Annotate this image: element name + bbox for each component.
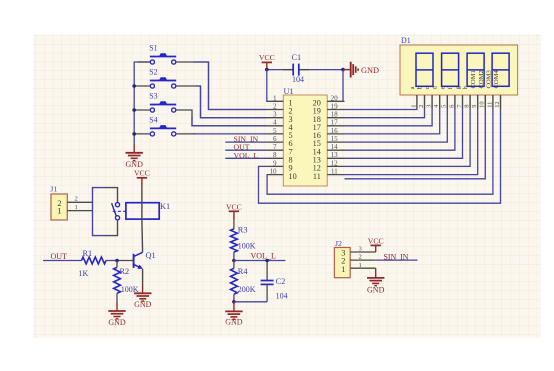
junction C1 left: [265, 68, 269, 72]
display pin 4: [439, 95, 441, 109]
svg-text:7: 7: [273, 144, 277, 151]
svg-text:GND: GND: [134, 300, 152, 309]
U1 pin 9 stub: [267, 165, 284, 167]
wire S4 left stub: [134, 133, 150, 135]
wire VCC to C1 to GND: [267, 69, 293, 71]
svg-text:1: 1: [57, 206, 61, 216]
wire S3 left stub: [134, 109, 150, 111]
U1 pin 5 stub: [267, 133, 284, 135]
J2 pin 2: [350, 259, 376, 261]
switch S3: [150, 108, 154, 112]
svg-text:11: 11: [313, 172, 321, 181]
svg-text:13: 13: [331, 152, 338, 159]
IC U1 body: [283, 95, 327, 186]
svg-text:c: c: [424, 86, 431, 89]
svg-text:J2: J2: [335, 239, 342, 248]
junction C2 top: [265, 259, 269, 263]
J1 pin 2: [67, 201, 92, 203]
U1 pin 3 stub: [267, 117, 284, 119]
svg-text:U1: U1: [284, 87, 294, 96]
wire R2 to ground: [116, 293, 118, 302]
svg-text:COM1: COM1: [470, 70, 477, 88]
wire contact loop: [93, 188, 106, 236]
svg-text:14: 14: [331, 144, 338, 151]
wire display pin 1 to U1: [345, 109, 417, 110]
display D1 body: [400, 45, 518, 95]
svg-text:19: 19: [331, 103, 338, 110]
display digit 2: [442, 53, 459, 86]
net OUT at U1 pin7: [225, 149, 266, 151]
svg-text:1K: 1K: [79, 269, 89, 278]
display digit 1: [416, 53, 433, 86]
ground below R2: [108, 310, 125, 312]
svg-text:10: 10: [479, 101, 486, 107]
wire U1 pin9 to display pin12: [259, 109, 501, 204]
svg-text:2: 2: [359, 254, 362, 261]
svg-text:10: 10: [289, 172, 297, 181]
ground at J2: [375, 268, 377, 278]
U1 pin 15 stub: [327, 141, 344, 143]
svg-text:S4: S4: [149, 116, 157, 125]
net SIN_IN wire at J2: [376, 259, 418, 261]
svg-text:6: 6: [448, 105, 455, 108]
resistor R2: [116, 261, 118, 268]
connector J2 body: [334, 248, 350, 278]
display pin 7: [462, 95, 464, 109]
svg-text:VCC: VCC: [259, 53, 275, 62]
capacitor C2: [266, 261, 268, 281]
svg-text:1: 1: [75, 204, 78, 211]
U1 pin 7 stub: [267, 149, 284, 151]
display digit 3: [467, 53, 484, 86]
svg-text:GND: GND: [126, 160, 144, 169]
svg-text:S2: S2: [149, 68, 157, 77]
svg-text:3: 3: [273, 112, 277, 119]
wire R1 to node: [106, 260, 119, 262]
wire display pin 7 to U1: [345, 109, 463, 159]
wire Q1 emitter to ground: [142, 269, 144, 286]
svg-text:COM3: COM3: [485, 69, 492, 88]
svg-text:GND: GND: [225, 318, 243, 327]
junction C1 right: [341, 68, 345, 72]
display pin 5: [446, 95, 448, 109]
connector J1 body: [51, 194, 67, 220]
net SIN_IN at U1 pin6: [225, 141, 266, 143]
transistor Q1: [133, 254, 135, 268]
svg-text:OUT: OUT: [51, 252, 68, 261]
J2 pin 3: [350, 251, 376, 253]
junction R3/R4: [232, 259, 236, 263]
svg-text:200K: 200K: [238, 285, 256, 294]
wire display pin 8 to U1: [345, 109, 471, 167]
U1 pin 1 stub: [267, 100, 284, 102]
svg-text:20: 20: [331, 95, 338, 102]
svg-text:a: a: [409, 86, 416, 89]
net VOL_L at U1 pin8: [225, 157, 266, 159]
wire display pin 9 to U1: [345, 109, 478, 175]
U1 pin 11 stub: [327, 174, 344, 176]
resistor R4: [233, 261, 235, 269]
svg-text:R3: R3: [238, 226, 248, 235]
wire U1 pin10 to display pin11: [267, 109, 493, 195]
wire display pin 10: [345, 109, 486, 179]
svg-text:C2: C2: [276, 277, 286, 286]
svg-text:6: 6: [273, 136, 277, 143]
U1 pin 16 stub: [327, 133, 344, 135]
svg-text:Q1: Q1: [146, 251, 156, 260]
svg-text:SIN_IN: SIN_IN: [384, 252, 409, 261]
svg-text:104: 104: [276, 292, 288, 301]
U1 pin 19 stub: [327, 109, 344, 111]
svg-text:R4: R4: [238, 267, 249, 276]
U1 pin 2 stub: [267, 109, 284, 111]
display pin 1: [416, 95, 418, 109]
display pin 12: [500, 95, 502, 109]
resistor R1: [82, 257, 107, 264]
U1 pin 6 stub: [267, 141, 284, 143]
wire display pin 6 to U1: [345, 109, 455, 151]
ground below Q1: [134, 292, 151, 294]
U1 pin 13 stub: [327, 157, 344, 159]
svg-text:3: 3: [426, 105, 433, 108]
display pin 10: [484, 95, 486, 109]
wire display pin 4 to U1: [345, 109, 440, 134]
svg-text:R1: R1: [83, 249, 93, 258]
switch S2: [150, 84, 154, 88]
svg-text:GND: GND: [367, 286, 385, 295]
svg-text:S3: S3: [149, 92, 157, 101]
wire R4 to ground: [233, 302, 235, 312]
resistor R3: [233, 220, 235, 229]
svg-text:1: 1: [359, 262, 362, 269]
svg-text:1: 1: [341, 265, 345, 274]
power ground right of C1: [343, 69, 351, 71]
svg-text:104: 104: [292, 75, 304, 84]
svg-text:GND: GND: [108, 318, 126, 327]
svg-text:1: 1: [273, 95, 276, 102]
display pin 8: [469, 95, 471, 109]
svg-text:12: 12: [494, 101, 501, 107]
display digit 4: [492, 53, 509, 86]
svg-text:S1: S1: [149, 44, 157, 53]
svg-text:J1: J1: [50, 184, 57, 193]
svg-text:15: 15: [331, 136, 338, 143]
wire GND junction down to pin20: [327, 70, 343, 102]
svg-text:VCC: VCC: [226, 203, 242, 212]
svg-text:VCC: VCC: [134, 169, 150, 178]
wire S1 to U1 pin2: [176, 62, 267, 110]
svg-text:17: 17: [331, 120, 338, 127]
junction on rail at S4: [132, 132, 136, 136]
wire display pin 5 to U1: [345, 109, 448, 143]
svg-text:COM2: COM2: [478, 70, 485, 88]
U1 pin 10 stub: [267, 174, 284, 176]
svg-text:K1: K1: [160, 202, 170, 211]
net OUT wire: [43, 260, 82, 262]
display pin 6: [454, 95, 456, 109]
wire node to Q1 base: [117, 260, 134, 262]
capacitor C1: [283, 69, 293, 71]
svg-text:10: 10: [270, 169, 277, 176]
U1 pin 20 stub: [327, 100, 344, 102]
wire left rail of switches: [134, 62, 150, 144]
display pin 3: [431, 95, 433, 109]
svg-text:GND: GND: [361, 66, 379, 75]
svg-text:R2: R2: [120, 267, 130, 276]
svg-text:12: 12: [331, 160, 338, 167]
svg-text:8: 8: [273, 152, 277, 159]
J1 pin 1: [67, 210, 92, 212]
svg-text:COM4: COM4: [493, 69, 500, 88]
svg-text:2: 2: [418, 105, 425, 108]
ground below R4: [225, 310, 242, 312]
J2 pin 1: [350, 267, 376, 269]
svg-text:D1: D1: [401, 36, 411, 45]
junction on rail at S3: [132, 108, 136, 112]
wire display pin 3 to U1: [345, 109, 433, 126]
display pin 11: [492, 95, 494, 109]
svg-text:8: 8: [464, 105, 471, 108]
wire C2 bottom to R4: [234, 301, 267, 303]
U1 pin 14 stub: [327, 149, 344, 151]
svg-text:VOL_L: VOL_L: [234, 151, 259, 160]
svg-text:16: 16: [331, 128, 338, 135]
svg-text:100K: 100K: [238, 242, 256, 251]
U1 pin 4 stub: [267, 125, 284, 127]
U1 pin 12 stub: [327, 165, 344, 167]
wire S2 left stub: [134, 85, 150, 87]
wire S1 left stub: [138, 61, 151, 63]
relay contact: [115, 203, 119, 207]
svg-text:b: b: [417, 86, 424, 89]
junction R1/R2/base: [115, 259, 119, 263]
U1 pin 8 stub: [267, 157, 284, 159]
svg-text:9: 9: [273, 160, 277, 167]
wire S4 to U1 pin5: [176, 133, 196, 135]
relay K1 coil: [126, 203, 159, 219]
svg-text:VCC: VCC: [368, 237, 384, 246]
display pin 9: [477, 95, 479, 109]
net VOL_L wire: [234, 260, 286, 262]
switch S4: [150, 132, 154, 136]
ground below switch rail: [133, 144, 135, 153]
svg-text:5: 5: [441, 105, 448, 108]
svg-text:C1: C1: [292, 53, 302, 62]
junction R4 bottom: [232, 300, 236, 304]
svg-text:1: 1: [410, 105, 417, 108]
switch S1: [150, 60, 154, 64]
display pin 2: [424, 95, 426, 109]
svg-text:4: 4: [273, 120, 277, 127]
svg-text:5: 5: [273, 128, 277, 135]
U1 pin 17 stub: [327, 125, 344, 127]
wire VCC junction down to pin1: [267, 70, 284, 102]
svg-text:11: 11: [486, 102, 493, 108]
wire S2 to U1 pin3: [176, 86, 267, 118]
svg-text:2: 2: [75, 196, 78, 203]
svg-text:VOL_L: VOL_L: [251, 251, 276, 260]
wire VCC through coil to Q1 collector: [141, 186, 143, 203]
svg-text:11: 11: [331, 169, 338, 176]
junction on rail at S2: [132, 84, 136, 88]
U1 pin 18 stub: [327, 117, 344, 119]
wire S3 to U1 pin4: [176, 110, 267, 126]
svg-text:9: 9: [471, 105, 478, 108]
svg-text:e: e: [439, 86, 446, 89]
wire display pin 2 to U1: [345, 109, 425, 118]
svg-text:2: 2: [273, 103, 277, 110]
svg-text:18: 18: [331, 112, 338, 119]
